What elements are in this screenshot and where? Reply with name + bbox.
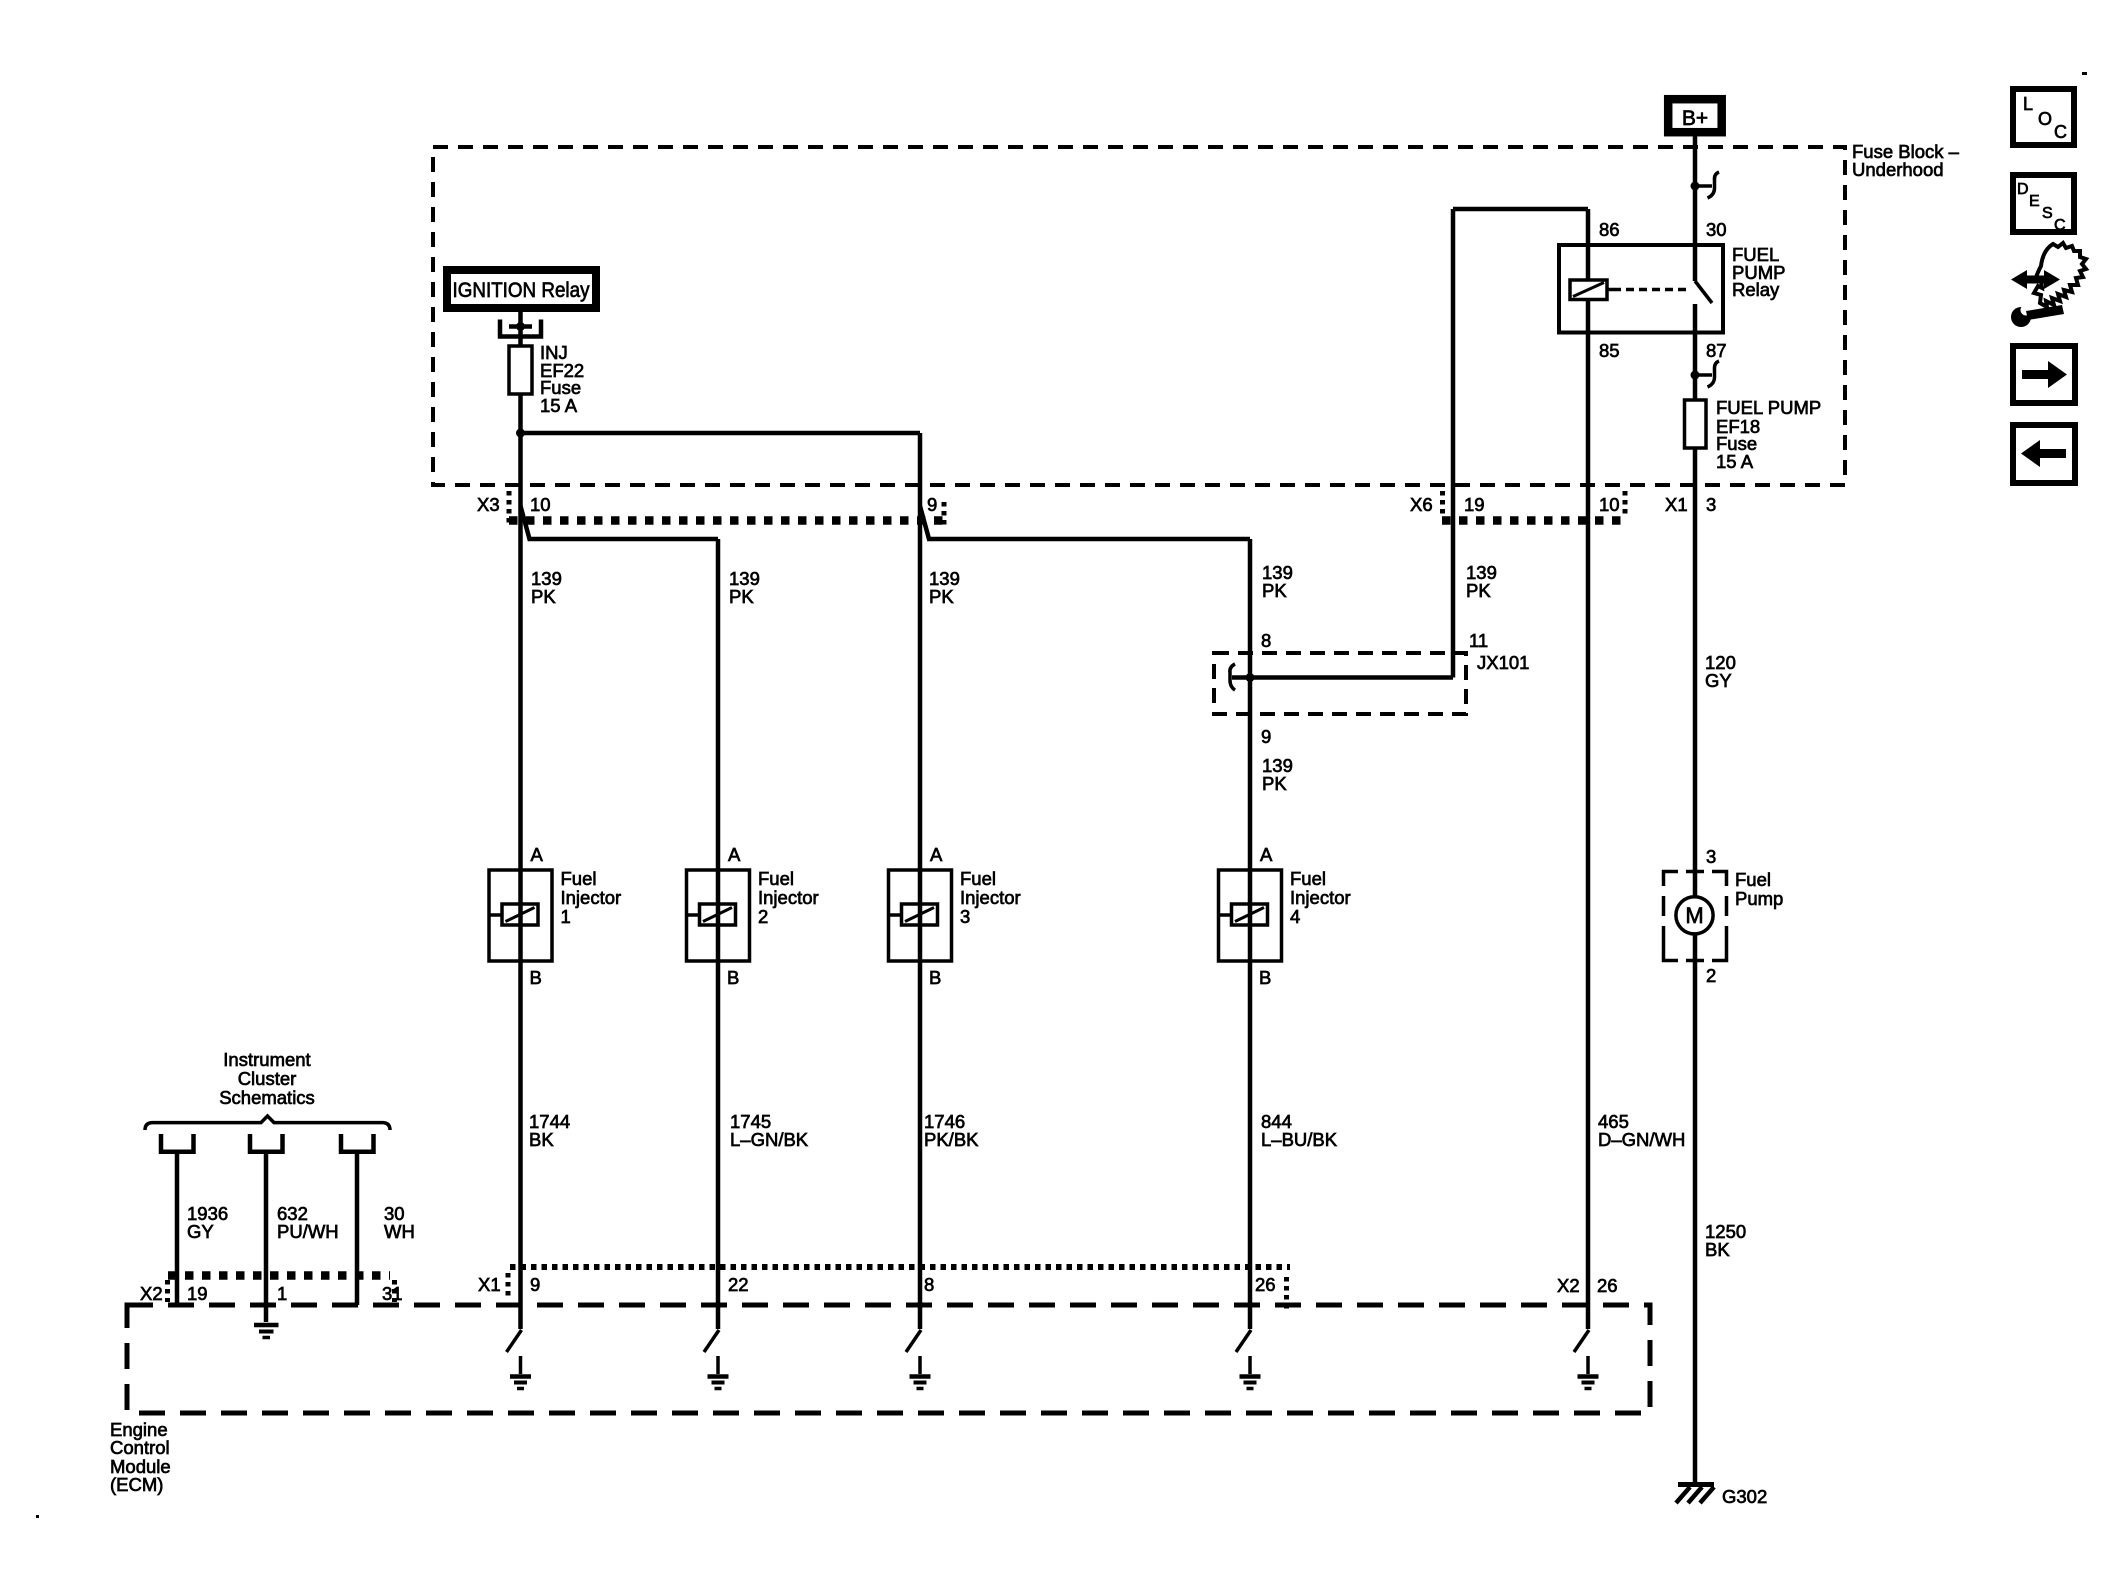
wire relay 87 to fuse EF18: [1693, 333, 1698, 400]
wire riser to X3 pin 9 and injector 3: [918, 433, 923, 961]
svg-text:B+: B+: [1682, 107, 1708, 130]
label IGNITION Relay (bold box): [447, 270, 596, 308]
svg-text:PU/WH: PU/WH: [277, 1221, 339, 1242]
svg-text:B: B: [727, 967, 739, 988]
wire B+ to relay pin 30: [1693, 136, 1698, 245]
svg-text:WH: WH: [384, 1221, 415, 1242]
icon arrow next button: [2013, 346, 2075, 403]
wire label 139 PK JX101 pin 8 feed: [1262, 562, 1293, 601]
wire branch X3-9 to JX101 pin 8: [920, 506, 1250, 539]
relay coil-contact dashed link: [1613, 288, 1691, 292]
wire injector 1 B to ECM X1-9: [518, 961, 523, 1329]
ground symbol ECM X1-9: [510, 1356, 531, 1389]
svg-text:8: 8: [924, 1274, 934, 1295]
svg-text:FUEL PUMP: FUEL PUMP: [1716, 397, 1821, 418]
svg-text:L: L: [2023, 94, 2033, 114]
ECM driver switch X1-26: [1236, 1330, 1251, 1352]
svg-text:JX101: JX101: [1477, 652, 1529, 673]
svg-text:M: M: [1685, 903, 1703, 928]
wire 1936 GY to ECM X2-19: [175, 1153, 180, 1305]
ECM driver switch X1-8: [906, 1330, 921, 1352]
svg-text:L–GN/BK: L–GN/BK: [730, 1129, 809, 1150]
wire label 30 WH: [384, 1203, 415, 1242]
wire fuel pump to G302: [1693, 934, 1698, 1484]
motor M fuel pump: [1676, 897, 1713, 934]
wire 86 vertical into relay coil: [1586, 209, 1591, 280]
icon DESC button: [2013, 175, 2074, 234]
svg-text:3: 3: [1706, 494, 1716, 515]
wire label 120 GY fuel pump feed: [1705, 652, 1736, 691]
connector X6 strip: [1442, 516, 1627, 525]
injector 3 solenoid coil: [902, 904, 938, 925]
svg-text:Fuel: Fuel: [960, 868, 996, 889]
brace instrument cluster: [145, 1116, 390, 1130]
wire label 465 D-GN/WH: [1598, 1111, 1685, 1150]
svg-text:19: 19: [1464, 494, 1485, 515]
wire JX101 internal bus: [1232, 675, 1453, 680]
label INJ EF22 Fuse 15 A: [540, 342, 584, 416]
svg-text:2: 2: [758, 906, 768, 927]
wire fuse EF22 down through X3 pin 10 to injector 1: [518, 394, 523, 961]
ECM dashed enclosure Engine Control Module: [127, 1305, 1650, 1413]
connector X3 left bracket: [507, 491, 512, 523]
svg-text:(ECM): (ECM): [110, 1474, 163, 1495]
svg-text:L–BU/BK: L–BU/BK: [1261, 1129, 1338, 1150]
svg-text:1: 1: [561, 906, 571, 927]
svg-text:26: 26: [1255, 1274, 1276, 1295]
icon arrow back button: [2013, 425, 2075, 483]
wire label 844 L-BU/BK: [1261, 1111, 1338, 1150]
label Fuel Pump: [1735, 869, 1783, 909]
wire injector 4 B to ECM X1-26: [1248, 961, 1253, 1329]
svg-text:8: 8: [1261, 630, 1271, 651]
connector X2 left row: [140, 1276, 403, 1305]
wire junction horizontal to injector 3 riser: [521, 431, 921, 436]
ground symbol ECM X1-26: [1240, 1356, 1261, 1389]
label Engine Control Module (ECM): [110, 1419, 171, 1495]
speck mark top right: [2082, 72, 2087, 75]
injector 4 Fuel Injector 4: [1219, 844, 1351, 988]
ECM driver switch X1-9: [507, 1330, 522, 1352]
svg-text:11: 11: [1469, 630, 1488, 651]
svg-text:BK: BK: [1705, 1239, 1730, 1260]
svg-text:X6: X6: [1410, 494, 1433, 515]
wire relay 85 down through X6 pin 10 to ECM X2-26: [1586, 300, 1591, 1330]
label Fuse Block - Underhood: [1852, 141, 1960, 180]
svg-text:Fuel: Fuel: [1735, 869, 1771, 890]
ECM driver switch X1-22: [704, 1330, 719, 1352]
relay FUEL PUMP Relay box: [1559, 245, 1723, 333]
connector X2 right labels: [1557, 1275, 1618, 1296]
node junction dot JX101: [1246, 673, 1255, 682]
svg-text:X3: X3: [477, 494, 500, 515]
node dot on bus bar: [516, 322, 525, 331]
injector 2 Fuel Injector 2: [687, 844, 819, 988]
connector X6 right bracket: [1623, 491, 1628, 515]
ground symbol inside ECM below X2-1: [254, 1325, 279, 1338]
wire relay 86 feed horizontal: [1453, 207, 1588, 212]
injector 3 Fuel Injector 3: [889, 844, 1021, 988]
svg-text:19: 19: [187, 1283, 208, 1304]
svg-text:30: 30: [1706, 219, 1727, 240]
wire label 139 PK injector 2: [729, 568, 760, 607]
svg-text:15 A: 15 A: [1716, 451, 1754, 472]
svg-text:Cluster: Cluster: [238, 1068, 297, 1089]
svg-text:4: 4: [1290, 906, 1300, 927]
svg-text:PK: PK: [531, 586, 556, 607]
terminal instrument cluster 3: [341, 1134, 374, 1152]
svg-text:9: 9: [1261, 726, 1271, 747]
fuse block clip symbol below pin 87: [1695, 373, 1712, 377]
node junction dot on B+ wire: [1691, 182, 1700, 191]
wire label 139 PK injector 3: [929, 568, 960, 607]
svg-text:Schematics: Schematics: [219, 1087, 315, 1108]
junction block JX101 dashed box: [1214, 653, 1466, 714]
speck mark bottom left: [36, 1515, 39, 1518]
svg-text:A: A: [1260, 844, 1273, 865]
svg-text:Injector: Injector: [758, 887, 819, 908]
svg-text:87: 87: [1706, 340, 1727, 361]
wire label 1936 GY: [187, 1203, 228, 1242]
connector X1 right bracket: [1284, 1277, 1289, 1311]
injector 1 solenoid coil: [502, 904, 538, 925]
svg-text:G302: G302: [1722, 1486, 1767, 1507]
wire injector 3 B to ECM X1-8: [918, 961, 923, 1329]
svg-text:3: 3: [1706, 846, 1716, 867]
wire label 1745 L-GN/BK: [730, 1111, 809, 1150]
fuel pump dashed enclosure: [1664, 872, 1727, 961]
svg-text:GY: GY: [187, 1221, 214, 1242]
wire X6 pin 19 down to JX101 pin 11: [1451, 209, 1456, 678]
ground symbol ECM X1-22: [708, 1356, 729, 1389]
wire 30 WH to ECM X2-31: [355, 1153, 360, 1305]
svg-text:Instrument: Instrument: [223, 1049, 310, 1070]
svg-text:15 A: 15 A: [540, 395, 578, 416]
svg-text:IGNITION Relay: IGNITION Relay: [453, 279, 590, 302]
svg-text:Relay: Relay: [1732, 279, 1780, 300]
connector X3 right bracket: [942, 502, 947, 527]
svg-text:X2: X2: [1557, 1275, 1580, 1296]
svg-text:26: 26: [1597, 1275, 1618, 1296]
svg-text:B: B: [530, 967, 542, 988]
svg-text:Underhood: Underhood: [1852, 159, 1944, 180]
svg-text:22: 22: [728, 1274, 749, 1295]
connector X2 right bracket: [392, 1280, 397, 1302]
ECM driver switch X2-26: [1574, 1330, 1589, 1352]
bus bar symbol under ignition relay: [500, 320, 541, 337]
connector X1 left bracket: [506, 1273, 511, 1297]
svg-text:2: 2: [1706, 965, 1716, 986]
wire label 139 PK JX101 to injector 4: [1262, 755, 1293, 794]
connector X1 strip: [510, 1264, 1290, 1270]
svg-text:O: O: [2038, 109, 2052, 129]
ground symbol ECM X2-26: [1578, 1356, 1599, 1389]
fuse INJ EF22 15A: [509, 346, 532, 394]
svg-text:Injector: Injector: [561, 887, 622, 908]
terminal instrument cluster 2: [250, 1134, 283, 1152]
svg-text:E: E: [2029, 193, 2040, 210]
icon LOC button: [2013, 89, 2074, 145]
svg-text:Fuel: Fuel: [561, 868, 597, 889]
svg-text:PK: PK: [1466, 580, 1491, 601]
svg-text:PK: PK: [1262, 580, 1287, 601]
wire injector 2 B to ECM X1-22: [716, 961, 721, 1329]
clip symbol JX101: [1230, 664, 1235, 690]
svg-text:Injector: Injector: [1290, 887, 1351, 908]
svg-text:S: S: [2042, 205, 2053, 222]
svg-text:BK: BK: [529, 1129, 554, 1150]
power symbol B+: [1668, 99, 1722, 132]
svg-text:B: B: [1259, 967, 1271, 988]
label FUEL PUMP Relay: [1732, 244, 1785, 300]
injector 4 solenoid coil: [1232, 904, 1268, 925]
injector 2 body: [687, 870, 750, 961]
injector 1 Fuel Injector 1: [489, 844, 621, 988]
wire ignition relay to fuse: [518, 312, 523, 346]
svg-text:85: 85: [1599, 340, 1620, 361]
svg-text:Fuel: Fuel: [758, 868, 794, 889]
svg-text:9: 9: [530, 1274, 540, 1295]
wire label 139 PK X6-19 to JX101-11: [1466, 562, 1497, 601]
wire label 632 PU/WH: [277, 1203, 339, 1242]
svg-text:D: D: [2017, 181, 2029, 198]
svg-text:D–GN/WH: D–GN/WH: [1598, 1129, 1685, 1150]
svg-text:A: A: [531, 844, 544, 865]
connector X6 left bracket: [1440, 491, 1445, 515]
relay switch contact: [1693, 245, 1698, 281]
connector X3 strip: [509, 516, 949, 525]
ground G302 chassis symbol: [1676, 1485, 1714, 1504]
terminal instrument cluster 1: [161, 1134, 194, 1152]
svg-text:Pump: Pump: [1735, 888, 1783, 909]
svg-text:A: A: [728, 844, 741, 865]
connector X6 row: [1410, 491, 1627, 521]
svg-text:PK/BK: PK/BK: [924, 1129, 979, 1150]
injector 1 body: [489, 870, 552, 961]
fuse FUEL PUMP EF18 15A: [1685, 400, 1707, 448]
label Instrument Cluster Schematics: [219, 1049, 315, 1108]
wire fuse EF18 down through X1 pin 3 to fuel pump: [1693, 448, 1698, 897]
icon diagnostic double-arrow with wrench: [2011, 243, 2086, 327]
injector 2 solenoid coil: [700, 904, 736, 925]
svg-text:1: 1: [277, 1283, 287, 1304]
svg-text:X1: X1: [1665, 494, 1688, 515]
label FUEL PUMP EF18 Fuse 15 A: [1716, 397, 1821, 472]
wire label 139 PK injector 1: [531, 568, 562, 607]
fuse block clip symbol at B+ feed: [1695, 184, 1712, 188]
connector X1 bottom row: [478, 1267, 1290, 1311]
connector X2 left bracket: [165, 1280, 170, 1302]
injector 3 body: [889, 870, 952, 961]
svg-text:9: 9: [927, 494, 937, 515]
node junction dot below pin 87: [1691, 371, 1700, 380]
connector X2 strip: [168, 1271, 390, 1280]
svg-text:3: 3: [960, 906, 970, 927]
wire label 1250 BK: [1705, 1221, 1746, 1260]
svg-text:X2: X2: [140, 1283, 163, 1304]
relay coil: [1570, 280, 1613, 300]
svg-text:10: 10: [1599, 494, 1620, 515]
connector X1 top row: [1665, 494, 1716, 515]
node junction dot below fuse EF22: [516, 429, 525, 438]
svg-text:Fuel: Fuel: [1290, 868, 1326, 889]
injector 4 body: [1219, 870, 1282, 961]
wire branch X3-10 to injector 2: [521, 506, 719, 539]
wire label 1744 BK: [529, 1111, 570, 1150]
fuse block - underhood dashed enclosure: [433, 147, 1845, 485]
svg-text:Injector: Injector: [960, 887, 1021, 908]
svg-text:10: 10: [530, 494, 551, 515]
svg-text:C: C: [2054, 217, 2066, 234]
svg-text:PK: PK: [729, 586, 754, 607]
ground symbol ECM X1-8: [910, 1356, 931, 1389]
connector X3 row: [477, 491, 949, 527]
svg-text:X1: X1: [478, 1274, 501, 1295]
svg-text:PK: PK: [929, 586, 954, 607]
svg-text:C: C: [2054, 122, 2067, 142]
svg-text:B: B: [929, 967, 941, 988]
wire 632 PU/WH to ECM X2-1 ground: [264, 1153, 269, 1322]
svg-text:86: 86: [1599, 219, 1620, 240]
svg-text:GY: GY: [1705, 670, 1732, 691]
svg-text:PK: PK: [1262, 773, 1287, 794]
wire label 1746 PK/BK: [924, 1111, 979, 1150]
svg-text:A: A: [930, 844, 943, 865]
svg-text:Control: Control: [110, 1437, 170, 1458]
